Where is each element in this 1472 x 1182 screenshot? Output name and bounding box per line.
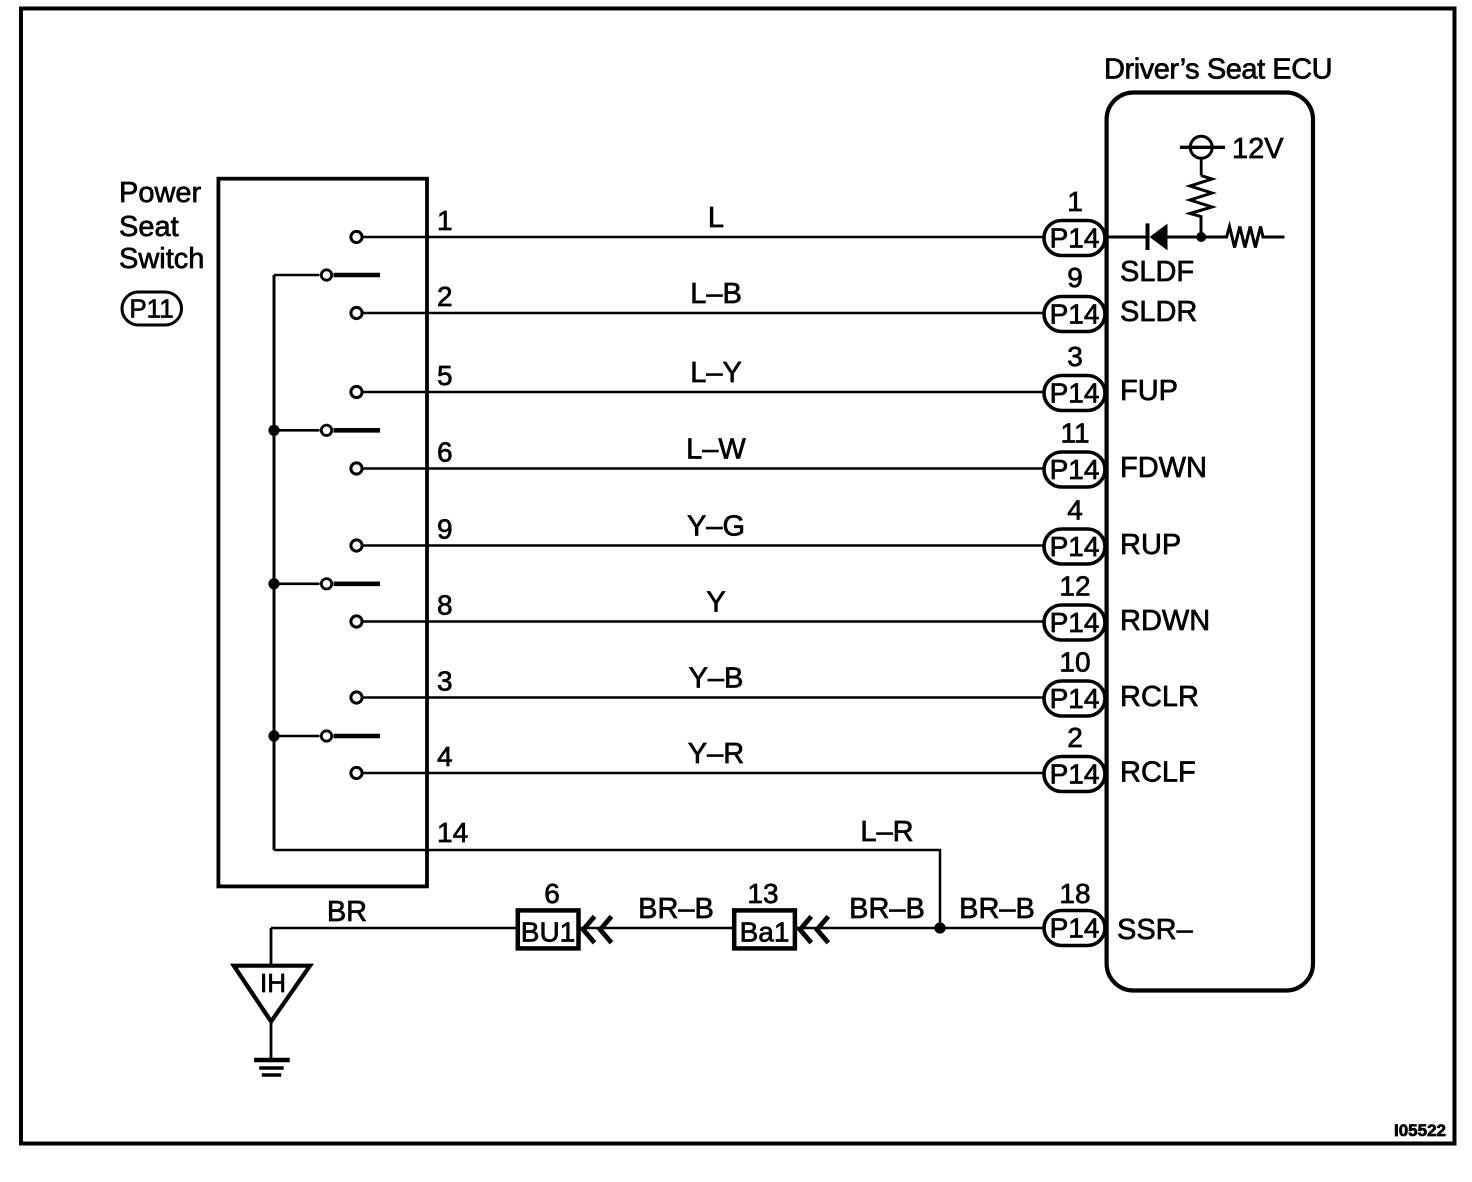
svg-text:Y–R: Y–R (688, 738, 744, 770)
svg-text:9: 9 (437, 514, 453, 545)
label Power Seat Switch (119, 177, 204, 275)
svg-text:RUP: RUP (1120, 529, 1181, 561)
svg-text:6: 6 (437, 437, 453, 468)
svg-text:Y: Y (706, 587, 725, 619)
junction dot bus B (268, 425, 279, 436)
svg-text:Power: Power (119, 177, 202, 209)
svg-text:3: 3 (437, 666, 453, 697)
resistor R1 vertical (1190, 176, 1212, 238)
svg-text:BR: BR (327, 896, 367, 928)
wire 6 L-W (351, 463, 1046, 474)
svg-text:SLDR: SLDR (1120, 296, 1197, 328)
svg-text:18: 18 (1059, 878, 1090, 909)
connector pin P14 (2) (1044, 757, 1105, 792)
svg-text:P14: P14 (1050, 913, 1100, 944)
switch contact C (274, 579, 380, 589)
svg-text:P14: P14 (1050, 607, 1100, 638)
connector pin P14 (11) (1044, 452, 1105, 487)
junction dot bus D (268, 730, 279, 741)
svg-text:10: 10 (1059, 647, 1090, 678)
bottom wire BR / BR-B (271, 927, 1046, 930)
svg-text:RCLF: RCLF (1120, 757, 1196, 789)
switch contact D (274, 731, 380, 741)
svg-text:SLDF: SLDF (1120, 256, 1194, 288)
svg-text:L–Y: L–Y (690, 357, 742, 389)
svg-text:FUP: FUP (1120, 375, 1178, 407)
connector pin P14 (4) (1044, 529, 1105, 564)
svg-text:8: 8 (437, 590, 453, 621)
switch contact A (274, 270, 380, 280)
chevrons after BU1 (583, 916, 611, 942)
svg-text:I05522: I05522 (1394, 1121, 1446, 1140)
wire 2 L-B (351, 307, 1046, 318)
svg-text:P11: P11 (129, 294, 173, 324)
connector pin P14 (3) (1044, 376, 1105, 411)
svg-text:Ba1: Ba1 (740, 917, 790, 948)
connector pin P14 (12) (1044, 605, 1105, 640)
svg-text:13: 13 (747, 878, 778, 909)
svg-text:12: 12 (1059, 571, 1090, 602)
wire from P14 pin1 to diode (1105, 236, 1147, 239)
connector pin P14 (10) (1044, 681, 1105, 716)
svg-text:BU1: BU1 (521, 917, 575, 948)
svg-text:4: 4 (1067, 495, 1083, 526)
power seat switch body (218, 179, 427, 887)
12V supply symbol (1180, 136, 1225, 175)
svg-text:Switch: Switch (119, 243, 204, 275)
svg-text:L–W: L–W (686, 434, 746, 466)
svg-text:RDWN: RDWN (1120, 605, 1210, 637)
ECU body (1107, 93, 1313, 991)
svg-text:6: 6 (544, 878, 560, 909)
wire 9 Y-G (351, 540, 1046, 551)
junction dot wire14/BR-B (934, 922, 945, 933)
svg-text:RCLR: RCLR (1120, 681, 1199, 713)
svg-text:Driver’s Seat ECU: Driver’s Seat ECU (1104, 54, 1332, 86)
svg-text:12V: 12V (1232, 133, 1284, 165)
connector pin P14 (1) (1044, 221, 1105, 256)
wire IH to ground (270, 1022, 273, 1060)
svg-text:FDWN: FDWN (1120, 452, 1207, 484)
svg-text:Y–B: Y–B (689, 663, 744, 695)
svg-text:5: 5 (437, 360, 453, 391)
svg-text:9: 9 (1067, 262, 1083, 293)
wire 14 L-R (274, 850, 940, 928)
chevrons after Ba1 (800, 916, 828, 942)
wire 8 Y (351, 616, 1046, 627)
svg-text:L–R: L–R (860, 816, 913, 848)
switch contact B (274, 425, 380, 435)
svg-text:3: 3 (1067, 341, 1083, 372)
svg-text:P14: P14 (1050, 299, 1100, 330)
svg-text:Seat: Seat (119, 211, 179, 243)
wire 1 L (351, 231, 1046, 242)
svg-text:14: 14 (437, 817, 468, 848)
connector pin P14 (18) (1044, 911, 1105, 946)
connector label P11 (122, 292, 182, 325)
connector Ba1 (734, 910, 795, 948)
svg-text:BR–B: BR–B (849, 893, 925, 925)
ground connector IH (234, 966, 310, 1022)
svg-text:L–B: L–B (690, 278, 742, 310)
ground symbol (254, 1060, 290, 1075)
svg-text:Y–G: Y–G (687, 511, 745, 543)
svg-text:1: 1 (1067, 186, 1083, 217)
svg-text:SSR–: SSR– (1117, 914, 1194, 946)
svg-text:P14: P14 (1050, 378, 1100, 409)
diode D1 (1148, 223, 1202, 250)
svg-text:11: 11 (1060, 418, 1089, 449)
svg-text:L: L (708, 202, 724, 234)
wire to IH ground (270, 928, 273, 966)
wire 4 Y-R (351, 767, 1046, 778)
svg-text:P14: P14 (1050, 223, 1100, 254)
svg-text:P14: P14 (1050, 683, 1100, 714)
svg-text:BR–B: BR–B (638, 893, 714, 925)
svg-text:BR–B: BR–B (959, 893, 1035, 925)
switch bus wire (273, 275, 276, 850)
svg-text:IH: IH (260, 968, 286, 998)
svg-text:P14: P14 (1050, 454, 1100, 485)
junction dot bus C (268, 578, 279, 589)
svg-text:1: 1 (437, 205, 453, 236)
resistor R2 horizontal (1201, 227, 1285, 248)
wire 3 Y-B (351, 692, 1046, 703)
svg-text:4: 4 (437, 741, 453, 772)
connector pin P14 (9) (1044, 297, 1105, 332)
svg-text:P14: P14 (1050, 759, 1100, 790)
svg-text:2: 2 (1067, 722, 1083, 753)
svg-text:2: 2 (437, 281, 453, 312)
junction dot node (1196, 232, 1206, 242)
wire 5 L-Y (351, 386, 1046, 397)
connector BU1 (518, 910, 579, 948)
svg-text:P14: P14 (1050, 531, 1100, 562)
